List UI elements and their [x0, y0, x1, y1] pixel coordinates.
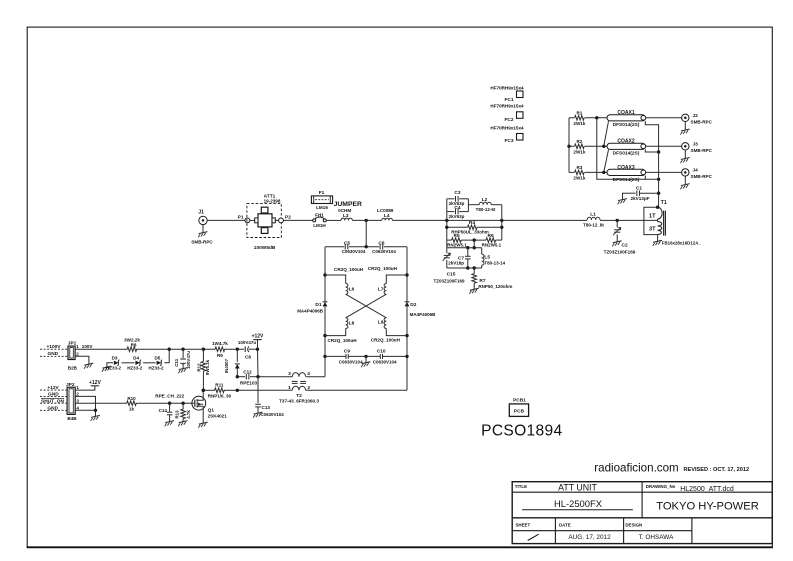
svg-text:1: 1: [76, 385, 79, 390]
svg-text:JP2: JP2: [66, 382, 75, 388]
zener diodes D3 D4 D5 HZ33-2 chain to ground: [102, 349, 169, 372]
capacitor C14 with ground: [159, 403, 174, 426]
wire L3 to L4 with junction: [352, 219, 382, 222]
svg-text:FC3: FC3: [504, 138, 513, 144]
inductor L8 CR2Q_100uH: [325, 318, 355, 336]
wire C3 C4 to L2: [468, 199, 479, 212]
resistor R13 4.7k with ground: [174, 403, 191, 426]
wire filter left rail upper: [446, 199, 448, 240]
wire sub-block bottom rail: [447, 266, 482, 269]
wire main line through filter block: [445, 219, 503, 222]
wire COAX1 to J2: [646, 117, 682, 119]
connector J3 SMB-RPC with ground: [680, 142, 712, 164]
wire COAX3 to J4: [646, 171, 682, 173]
svg-text:TZ03Z100F169: TZ03Z100F169: [604, 249, 636, 254]
svg-text:J2: J2: [693, 113, 699, 119]
svg-text:L5: L5: [484, 254, 490, 260]
connector J4 SMB-RPC with ground: [680, 168, 712, 190]
capacitor C4 2kV63p: [447, 205, 469, 219]
inductor L5 T80-13-14: [482, 248, 506, 268]
svg-text:C10: C10: [377, 348, 386, 354]
svg-text:+12V: +12V: [252, 334, 264, 340]
label PCSO1894: [481, 422, 562, 439]
svg-text:RN2W5.1: RN2W5.1: [447, 243, 467, 248]
svg-text:+12V: +12V: [89, 380, 101, 386]
+12V power symbol: [252, 334, 264, 351]
wire diagonal COAX2 shield to COAX3 node: [602, 150, 608, 174]
svg-text:4: 4: [76, 405, 79, 410]
svg-text:FC2: FC2: [504, 117, 513, 123]
svg-text:SMB-RPC: SMB-RPC: [691, 174, 713, 179]
svg-text:REVISED : OCT. 17, 2012: REVISED : OCT. 17, 2012: [684, 467, 750, 473]
capacitor C8 100V47u: [238, 340, 258, 359]
svg-text:C1: C1: [636, 185, 642, 191]
svg-text:C13: C13: [262, 405, 271, 410]
wire C12 node to T2 pin 3: [258, 376, 292, 378]
svg-text:2: 2: [76, 392, 79, 397]
resistor R3 2W1k: [569, 165, 607, 181]
wire R9 to C8: [225, 348, 245, 351]
wire junction down to C5 C6 rail: [365, 220, 367, 246]
svg-text:R9: R9: [217, 353, 223, 358]
wire filter block to L1: [502, 219, 587, 221]
svg-text:C2: C2: [622, 243, 628, 249]
diode D6 IN4007: [224, 349, 240, 377]
svg-text:J1: J1: [198, 210, 204, 216]
svg-text:100V47u: 100V47u: [186, 351, 191, 369]
svg-text:COAX1: COAX1: [617, 110, 634, 116]
resistor R12 9W5.1k vertical: [196, 349, 210, 390]
svg-text:B4B: B4B: [67, 416, 77, 421]
svg-text:C0630V104: C0630V104: [339, 359, 363, 364]
svg-text:MA4P4006B: MA4P4006B: [410, 312, 437, 317]
svg-text:D1: D1: [315, 302, 321, 308]
svg-text:2W1k: 2W1k: [573, 121, 585, 126]
svg-text:9W5.1k: 9W5.1k: [205, 359, 210, 375]
wire COAX2 shield to right rail: [645, 149, 658, 152]
svg-text:radioaficion.com: radioaficion.com: [594, 462, 678, 475]
capacitor C12 RPE103: [236, 370, 260, 386]
svg-text:DFS014(2S): DFS014(2S): [613, 122, 640, 128]
svg-text:C6: C6: [378, 240, 384, 246]
ferrite core FC2 HF70RH9x15x4: [490, 104, 524, 124]
svg-text:D4: D4: [133, 355, 139, 360]
svg-text:C0630V104: C0630V104: [342, 249, 366, 254]
svg-text:HL2500_ATT.dcd: HL2500_ATT.dcd: [680, 486, 734, 493]
svg-text:HZ33-2: HZ33-2: [106, 365, 122, 370]
svg-text:TITLE: TITLE: [515, 484, 527, 489]
svg-text:RN2W5.1: RN2W5.1: [482, 243, 502, 248]
wire left rail of cross block: [323, 247, 326, 377]
label revised date: [684, 467, 750, 473]
attenuator ATT1 19-2398 100W5dB: [247, 193, 281, 251]
svg-text:COAX2: COAX2: [617, 139, 634, 145]
svg-text:R12: R12: [196, 363, 201, 372]
svg-text:100W5dB: 100W5dB: [254, 245, 276, 251]
coax delay line COAX2 DFS014(2S): [607, 139, 646, 157]
resistor R8 3W2.2k: [124, 337, 140, 351]
svg-text:L4: L4: [384, 213, 390, 219]
svg-text:TZ03Z100F169: TZ03Z100F169: [433, 279, 465, 284]
svg-text:HF70RH9x15x4: HF70RH9x15x4: [490, 86, 524, 91]
svg-text:1: 1: [76, 344, 79, 349]
svg-text:P2: P2: [285, 214, 291, 220]
wire gate line with junctions: [136, 393, 192, 405]
trimmer capacitor C15 TZ03Z100F169: [433, 240, 465, 284]
title block: [512, 482, 772, 544]
svg-text:C5: C5: [344, 240, 350, 246]
svg-text:T80-13-14: T80-13-14: [484, 261, 505, 266]
svg-text:CR2Q_100uH: CR2Q_100uH: [368, 266, 398, 271]
svg-text:DATE: DATE: [559, 522, 571, 527]
svg-text:PCB1: PCB1: [513, 398, 526, 404]
svg-text:L9: L9: [378, 319, 384, 325]
fuse F1 LM16 spare: [311, 190, 332, 210]
transformer T2 T37-43_6FR1060.3: [279, 371, 319, 403]
wire L2 to right rail: [491, 205, 503, 240]
svg-text:4: 4: [307, 371, 310, 377]
connector JP1 B2B +100V input: [40, 341, 93, 371]
node Q1 drain junction: [202, 389, 205, 392]
diode D2 MA4P4006B: [405, 299, 437, 317]
svg-text:RNP1/6_39: RNP1/6_39: [208, 394, 232, 399]
wire diagonal COAX1 shield to COAX2 node: [602, 121, 608, 148]
coax delay line COAX1 DFS014(2S): [607, 110, 646, 128]
inductor L6 CR2Q_100uH: [325, 275, 355, 294]
svg-text:SHEET: SHEET: [516, 522, 531, 527]
svg-text:COAX3: COAX3: [617, 165, 634, 171]
resistor R9 1W4.7k: [212, 341, 228, 358]
svg-text:GND: GND: [47, 405, 58, 411]
wire T2 pin 2 to right rail: [306, 389, 407, 391]
svg-text:100V47u: 100V47u: [238, 340, 257, 345]
wire L7 to L8 diagonal: [346, 294, 387, 318]
svg-text:2: 2: [76, 351, 79, 356]
svg-text:R13: R13: [174, 410, 179, 419]
svg-text:L6: L6: [349, 286, 355, 292]
svg-text:DFS014(2S): DFS014(2S): [613, 177, 640, 183]
wire R11 node to T2 pin 1: [237, 389, 292, 391]
svg-text:GND: GND: [48, 392, 59, 398]
svg-text:L3: L3: [343, 213, 349, 219]
svg-text:DFS014(2S): DFS014(2S): [613, 150, 640, 156]
terminal P1: [238, 214, 250, 223]
wire +12V rail down: [257, 349, 260, 377]
svg-text:IN4007: IN4007: [224, 358, 229, 373]
resistor R2 2W1k: [569, 139, 607, 155]
inductor L9 CR2Q_100uH: [378, 318, 407, 336]
svg-text:L8: L8: [349, 321, 355, 327]
svg-text:R4: R4: [469, 220, 475, 226]
svg-text:R8: R8: [131, 342, 137, 347]
transistor Q1 2SK4021 MOSFET with ground: [192, 390, 227, 428]
resistor R4 RHP50UL_33ohm: [445, 220, 502, 234]
ferrite core FC3 HF70RH9x15x4: [490, 126, 524, 145]
svg-text:SMB-RPC: SMB-RPC: [691, 119, 713, 124]
capacitor C1 2kV13pF: [618, 185, 659, 204]
svg-text:J3: J3: [693, 142, 699, 148]
svg-text:2W1k: 2W1k: [573, 176, 585, 181]
ferrite core FC1 HF70RH9x15x4: [490, 86, 524, 104]
svg-text:C4: C4: [454, 205, 460, 211]
svg-text:LC0089: LC0089: [377, 208, 394, 213]
resistor R11 RNP1/6_39: [202, 383, 239, 399]
labels CR2Q_100uH bottom: [328, 338, 401, 344]
svg-text:DRAWING_No: DRAWING_No: [646, 484, 676, 489]
svg-text:R11: R11: [215, 383, 224, 388]
svg-text:LM16: LM16: [316, 205, 328, 210]
svg-text:R2: R2: [576, 139, 582, 144]
svg-text:+12V: +12V: [47, 385, 59, 391]
label JUMPER: [334, 201, 362, 208]
coax delay line COAX3 DFS014(2S): [607, 165, 646, 183]
svg-text:RNP50_120ohm: RNP50_120ohm: [478, 284, 512, 289]
connector J2 SMB-RPC with ground: [680, 113, 712, 135]
svg-text:+100V: +100V: [47, 344, 62, 350]
svg-text:HZ33-2: HZ33-2: [148, 365, 164, 370]
svg-text:C3: C3: [454, 190, 460, 196]
svg-text:2SK4021: 2SK4021: [208, 414, 228, 419]
svg-text:PCSO1894: PCSO1894: [481, 422, 562, 439]
svg-text:L1: L1: [590, 211, 596, 217]
fuse holder FH1 LM1H: [313, 213, 327, 228]
wire J1 to P1: [207, 219, 245, 221]
label radioaficion.com: [594, 462, 678, 475]
svg-text:R5: R5: [454, 233, 460, 239]
wire FH1 to L3: [326, 219, 341, 221]
svg-text:T37-43_6FR1060.3: T37-43_6FR1060.3: [279, 399, 319, 404]
svg-text:J4: J4: [693, 168, 699, 174]
svg-text:AUG. 17, 2012: AUG. 17, 2012: [568, 534, 611, 541]
inductor L4 LC0089: [377, 208, 394, 221]
wire right shield rail down to T1: [645, 121, 660, 207]
capacitor C13 C0630V104 with ground: [253, 377, 284, 418]
connector JP2 B4B with +12V and grounds: [40, 380, 101, 421]
wire P2 to FH1: [283, 219, 312, 221]
capacitors C9 C10 C0630V104 with center ground: [325, 348, 407, 367]
svg-text:HZ33-2: HZ33-2: [127, 365, 143, 370]
svg-text:F1: F1: [319, 190, 325, 196]
PCB1 outline box: [509, 398, 528, 417]
svg-text:1k: 1k: [129, 406, 135, 411]
svg-text:D3: D3: [112, 355, 118, 360]
inductor L1 T80-12_8t: [583, 211, 604, 227]
svg-text:R10: R10: [127, 396, 136, 401]
svg-text:T1: T1: [661, 200, 667, 206]
svg-text:C12: C12: [243, 370, 252, 375]
wire COAX2 to J3: [646, 145, 682, 147]
wire 100V rail with junctions: [136, 348, 215, 351]
svg-text:C0630V104: C0630V104: [261, 412, 285, 417]
svg-text:0CHM: 0CHM: [338, 208, 351, 213]
svg-text:C0630V104: C0630V104: [372, 249, 396, 254]
svg-text:C8: C8: [245, 354, 251, 359]
wire right rail of cross block: [405, 247, 408, 391]
inductor L2 T80-12-6t: [476, 197, 496, 212]
svg-text:C15: C15: [447, 271, 456, 277]
svg-text:R1: R1: [576, 111, 582, 116]
svg-text:1T: 1T: [649, 214, 656, 220]
svg-text:D2: D2: [410, 302, 416, 308]
wire COAX3 shield to bus: [644, 176, 646, 180]
svg-text:CR2Q_100uH: CR2Q_100uH: [371, 338, 401, 343]
wire L6 to L9 diagonal: [346, 294, 387, 318]
svg-text:C14: C14: [159, 408, 168, 413]
svg-text:PCB: PCB: [514, 408, 525, 414]
svg-text:RPE103: RPE103: [240, 380, 258, 385]
resistor R10 1k: [127, 396, 137, 411]
svg-text:FB16x28x16D12A_: FB16x28x16D12A_: [662, 241, 702, 246]
svg-text:HL-2500FX: HL-2500FX: [554, 498, 603, 509]
svg-text:2kV63p: 2kV63p: [449, 214, 465, 219]
wire JP1 to R8: [75, 348, 127, 350]
wire left rail of R1-R3: [567, 118, 570, 173]
svg-text:2W1k: 2W1k: [573, 150, 585, 155]
svg-text:100V: 100V: [82, 344, 94, 349]
inductor L7 CR2Q_100uH: [378, 275, 407, 294]
svg-text:T. OHSAWA: T. OHSAWA: [639, 534, 674, 541]
svg-text:B2B: B2B: [68, 365, 78, 370]
svg-text:DESIGN: DESIGN: [625, 522, 642, 527]
labels CR2Q_100uH top: [334, 266, 398, 272]
svg-text:T80-12_8t: T80-12_8t: [583, 222, 604, 227]
svg-text:RPE_CH_222: RPE_CH_222: [155, 393, 184, 398]
svg-text:3: 3: [76, 398, 79, 403]
svg-text:SMB-RPC: SMB-RPC: [691, 148, 713, 153]
svg-text:C11: C11: [174, 358, 179, 367]
wire cross block to T2 pin 4: [306, 376, 325, 378]
svg-text:SMB-RPC: SMB-RPC: [191, 239, 213, 244]
svg-text:1W4.7k: 1W4.7k: [212, 341, 228, 346]
wire sub-block top rail: [447, 246, 482, 249]
svg-text:2kV18p: 2kV18p: [448, 261, 464, 266]
svg-text:HF70RH9x15x4: HF70RH9x15x4: [490, 104, 524, 109]
trimmer capacitor C2 TZ03Z100F169 with ground: [604, 220, 636, 254]
wire JP2 pin3 to R10: [75, 402, 127, 404]
svg-text:R3: R3: [576, 165, 582, 170]
svg-text:FC1: FC1: [504, 97, 513, 103]
inductor L3 0CHM: [338, 208, 352, 221]
svg-text:MA4P4006B: MA4P4006B: [297, 308, 324, 313]
svg-text:D5: D5: [154, 355, 160, 360]
svg-text:HF70RH9x15x4: HF70RH9x15x4: [490, 126, 524, 131]
capacitor C11 100V47u with ground: [174, 349, 191, 373]
svg-text:GND: GND: [48, 351, 59, 357]
svg-text:C0630V104: C0630V104: [373, 359, 397, 364]
connector J1 SMB-RPC with ground: [191, 210, 213, 245]
svg-text:T80-12-6t: T80-12-6t: [476, 207, 496, 212]
diode D1 MA4P4006B: [297, 299, 327, 313]
resistor R1 2W1k: [569, 111, 607, 127]
svg-text:P1: P1: [238, 214, 244, 220]
resistor R7 RNP50_120ohm with ground: [469, 268, 512, 294]
svg-text:LM1H: LM1H: [313, 223, 326, 228]
svg-text:SHUT_ON: SHUT_ON: [41, 398, 64, 404]
svg-text:CR2Q_100uH: CR2Q_100uH: [328, 338, 358, 343]
svg-text:R6: R6: [488, 233, 494, 239]
svg-text:2kV13pF: 2kV13pF: [631, 196, 650, 201]
resistors R5 R6 RN2W5.1: [447, 233, 502, 247]
capacitor C7 2kV18p: [448, 248, 470, 268]
wire shield rail from COAX1 down to bus: [595, 116, 660, 181]
svg-text:R7: R7: [479, 278, 485, 284]
svg-text:L2: L2: [482, 197, 488, 203]
svg-text:FH1: FH1: [315, 213, 324, 218]
svg-text:4.7k: 4.7k: [186, 410, 191, 419]
wire L4 to filter block: [392, 219, 446, 221]
transformer T1 FB16x28x16D12A: [644, 200, 702, 246]
svg-text:TOKYO HY-POWER: TOKYO HY-POWER: [656, 501, 759, 513]
svg-text:L7: L7: [378, 286, 384, 292]
wire L1 to T1 tap: [600, 219, 658, 222]
wire R5 R6 midpoint down: [473, 240, 476, 249]
svg-text:19-2398: 19-2398: [264, 199, 281, 204]
svg-text:C9: C9: [344, 348, 350, 354]
capacitor C3 2kV63p: [447, 190, 469, 206]
svg-text:ATT UNIT: ATT UNIT: [558, 483, 597, 493]
terminal P2: [279, 214, 292, 223]
svg-text:CR2Q_100uH: CR2Q_100uH: [334, 267, 364, 272]
svg-text:3T: 3T: [649, 227, 656, 233]
capacitors C5 C6 C0630V104 top rail: [325, 240, 407, 254]
